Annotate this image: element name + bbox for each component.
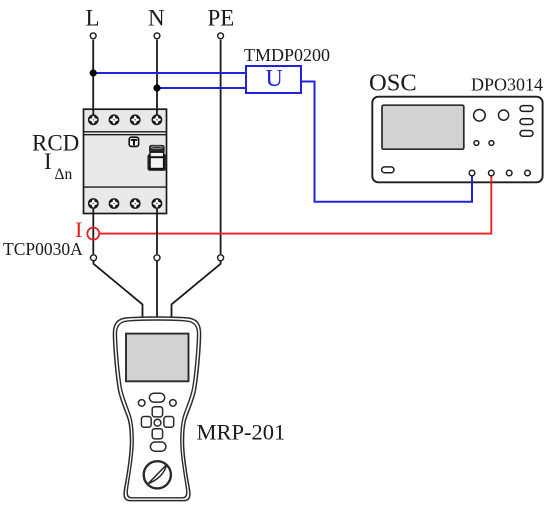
wire N stub into top strip	[156, 109, 158, 120]
wire PE lead to meter	[172, 261, 221, 319]
svg-text:DPO3014: DPO3014	[471, 75, 543, 95]
wire red stub to BNC2 inside scope	[490, 175, 492, 183]
RCD screw terminal bottom 4	[152, 198, 163, 209]
RCD screw terminal top 2	[109, 114, 120, 125]
RCD screw terminal bottom 1	[88, 198, 99, 209]
meter MRP-201 body outer outline	[113, 317, 200, 501]
RCD divider top double line	[84, 131, 167, 133]
meter screen	[126, 334, 189, 382]
meter button down	[152, 429, 162, 439]
wire blue tap from L to U probe	[93, 72, 246, 74]
svg-text:OSC: OSC	[369, 70, 417, 97]
wire blue from U probe to oscilloscope CH1	[301, 82, 472, 202]
wire blue stub to BNC1 inside scope	[471, 175, 473, 183]
svg-text:I: I	[44, 149, 52, 174]
svg-text:TCP0030A: TCP0030A	[3, 239, 83, 259]
meter button pill top	[149, 393, 164, 402]
meter button left	[141, 417, 151, 428]
RCD screw terminal top 4	[152, 114, 163, 125]
oscilloscope menu button 1	[520, 106, 533, 112]
oscilloscope menu button 2	[520, 119, 533, 125]
terminal N top circle	[154, 33, 160, 39]
RCD test button T	[129, 137, 138, 146]
oscilloscope BNC input 1	[469, 170, 475, 176]
oscilloscope U2 body	[372, 97, 542, 183]
meter MRP-201 body inner outline	[116, 320, 197, 498]
wire N lead to meter	[156, 261, 158, 319]
connector circle PE	[218, 255, 224, 261]
meter rotary knob	[144, 461, 171, 488]
oscilloscope power button	[382, 167, 394, 173]
oscilloscope screen	[382, 105, 464, 149]
wire N between RCD and circle	[156, 209, 158, 255]
RCD screw terminal bottom 3	[130, 198, 141, 209]
meter button circle right	[170, 400, 177, 407]
wire N vertical top	[156, 40, 158, 110]
meter button circle left	[138, 400, 145, 407]
meter button right	[164, 417, 174, 428]
terminal L top circle	[90, 33, 96, 39]
connector circle L	[91, 255, 97, 261]
svg-text:TMDP0200: TMDP0200	[244, 45, 330, 65]
wire blue tap from N to U probe	[157, 87, 246, 89]
RCD toggle switch lever	[147, 145, 166, 171]
svg-text:Δn: Δn	[55, 166, 73, 183]
current probe I circle	[87, 228, 99, 240]
RCD screw terminal top 1	[88, 114, 99, 125]
terminal PE top circle	[218, 33, 224, 39]
svg-text:N: N	[148, 6, 165, 31]
oscilloscope button small 2	[489, 141, 494, 146]
wire L vertical top	[92, 40, 94, 110]
RCD screw terminal top 3	[130, 114, 141, 125]
svg-text:MRP-201: MRP-201	[197, 420, 286, 445]
meter button up	[152, 407, 162, 417]
oscilloscope knob 2	[499, 110, 509, 120]
oscilloscope BNC input 3	[506, 170, 512, 176]
RCD body	[84, 109, 167, 213]
meter button pill bottom	[150, 442, 166, 451]
wire L lead to meter	[94, 261, 143, 319]
RCD divider bottom line	[84, 186, 167, 188]
oscilloscope button small 1	[474, 141, 479, 146]
junction dot on L	[90, 69, 97, 76]
connector circle N	[154, 255, 160, 261]
junction dot on N	[153, 84, 160, 91]
svg-text:L: L	[86, 6, 100, 31]
meter button center	[154, 419, 161, 426]
RCD screw terminal bottom 2	[109, 198, 120, 209]
wire L between RCD and connector	[92, 209, 94, 255]
oscilloscope BNC input 4	[525, 170, 531, 176]
wire red from current probe to oscilloscope CH2	[99, 176, 491, 234]
oscilloscope knob 1	[474, 110, 486, 122]
wire PE vertical	[220, 40, 222, 255]
voltage probe U1 box	[246, 66, 301, 93]
svg-text:U: U	[266, 66, 283, 92]
svg-text:RCD: RCD	[32, 131, 79, 156]
wire L stub into top strip	[92, 109, 94, 120]
svg-text:PE: PE	[208, 6, 235, 31]
oscilloscope BNC input 2	[489, 170, 495, 176]
oscilloscope menu button 3	[520, 131, 533, 137]
